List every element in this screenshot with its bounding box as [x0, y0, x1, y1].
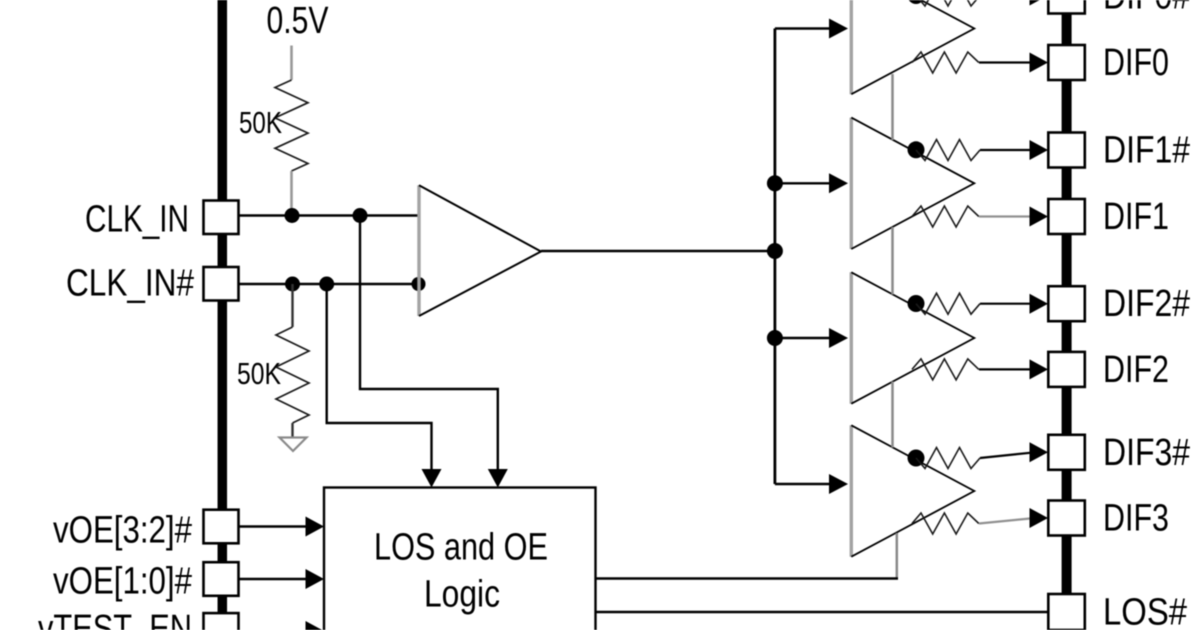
node distribution to buffer B2	[767, 330, 783, 346]
wire clock distribution bus	[774, 29, 777, 485]
svg-text:CLK_IN#: CLK_IN#	[66, 263, 194, 305]
wire OE vertical B3 to OE line (gray)	[896, 533, 899, 579]
output buffer B1	[851, 118, 974, 249]
input buffer U1	[419, 185, 541, 316]
arrow into DIF1# pin	[1030, 140, 1049, 160]
svg-text:Logic: Logic	[424, 574, 500, 616]
pin DIF2#	[1048, 286, 1085, 321]
wire CLK_IN tap to LOS logic	[360, 216, 498, 472]
pin DIF1	[1048, 199, 1085, 234]
arrow vOE[1:0]# into LOS logic	[306, 569, 325, 589]
svg-text:DIF0: DIF0	[1103, 42, 1169, 84]
wire stub resistor R2 to ground	[291, 423, 293, 438]
svg-text:DIF2: DIF2	[1103, 349, 1169, 391]
input buffer U1 left edge	[417, 185, 420, 316]
svg-text:vOE[1:0]#: vOE[1:0]#	[53, 561, 192, 603]
output buffer B2	[851, 272, 974, 403]
svg-text:LOS#: LOS#	[1103, 592, 1187, 630]
node junction CLK_IN tap	[353, 208, 368, 223]
left chip boundary bus	[218, 0, 228, 630]
wire resistor to DIF1# pin	[980, 149, 1030, 151]
wire CLK_IN to input buffer	[239, 214, 418, 216]
pin vOE[1:0]#	[204, 562, 239, 596]
pin CLK_IN#	[204, 267, 239, 301]
arrow into DIF2# pin	[1030, 294, 1049, 314]
wire resistor to DIF1 pin (gray)	[979, 215, 1030, 217]
arrow into DIF0# pin	[1030, 0, 1049, 6]
pin vOE[3:2]#	[204, 510, 239, 544]
svg-text:vOE[3:2]#: vOE[3:2]#	[53, 510, 192, 552]
pin DIF1#	[1048, 133, 1085, 168]
wire branch to buffer B0	[775, 27, 830, 29]
node distribution/input wire	[767, 243, 783, 259]
pin LOS#	[1048, 594, 1085, 630]
resistor on DIF2# output	[916, 293, 980, 314]
svg-text:50K: 50K	[239, 105, 282, 140]
svg-text:CLK_IN: CLK_IN	[85, 199, 189, 241]
resistor on DIF1# output	[916, 140, 980, 161]
svg-text:0.5V: 0.5V	[267, 0, 330, 42]
wire OE vertical B1-B2 (gray)	[891, 227, 894, 295]
node B3 inverting tap	[908, 450, 925, 467]
svg-text:DIF3: DIF3	[1103, 498, 1169, 540]
arrow into DIF2 pin	[1030, 359, 1049, 379]
wire OE line from LOS logic	[596, 577, 899, 579]
arrow into buffer B1	[829, 173, 848, 193]
output buffer B3 left edge	[850, 425, 853, 556]
arrow vTEST_EN into LOS logic	[306, 621, 325, 630]
pin DIF3#	[1048, 435, 1085, 470]
output buffer B3	[851, 425, 974, 556]
svg-text:DIF3#: DIF3#	[1103, 432, 1190, 474]
right chip boundary bus	[1062, 0, 1072, 594]
wire vOE[1:0]# to LOS logic	[239, 578, 307, 580]
output buffer B0	[851, 0, 974, 94]
svg-text:LOS and OE: LOS and OE	[374, 527, 548, 569]
resistor R2 50K pull-down	[276, 327, 309, 423]
pin CLK_IN	[204, 201, 239, 235]
LOS and OE Logic block U2	[324, 488, 596, 630]
arrow into DIF1 pin	[1030, 207, 1049, 227]
pin DIF3	[1048, 501, 1085, 536]
output buffer B1 left edge	[850, 118, 853, 249]
node B1 inverting tap	[908, 141, 925, 158]
wire OE vertical B0-B1 (gray)	[891, 74, 894, 140]
pin DIF0#	[1048, 0, 1085, 14]
node B2 inverting tap	[908, 295, 925, 312]
wire branch to buffer B2	[775, 337, 830, 339]
wire resistor to DIF3 pin (gray)	[979, 519, 1030, 524]
arrow into LOS logic top (from CLK_IN#)	[422, 469, 442, 488]
arrow into DIF3 pin	[1030, 508, 1049, 528]
svg-text:DIF0#: DIF0#	[1103, 0, 1190, 18]
arrow into DIF3# pin	[1030, 442, 1049, 462]
node junction R1/CLK_IN	[285, 208, 300, 223]
pin DIF0	[1048, 45, 1085, 80]
arrow into buffer B3	[829, 474, 848, 494]
pin DIF2	[1048, 352, 1085, 387]
wire stub from 0.5V to resistor R1	[290, 46, 293, 81]
wire LOS# from logic to pin	[596, 611, 1049, 613]
arrow into buffer B0	[829, 19, 848, 39]
ground	[280, 438, 307, 452]
wire stub CLK_IN# to resistor R2	[291, 284, 293, 327]
wire CLK_IN# to input buffer	[239, 283, 418, 285]
svg-text:50K: 50K	[237, 356, 281, 391]
svg-text:vTEST_EN: vTEST_EN	[38, 608, 192, 630]
output buffer B2 left edge	[850, 272, 853, 403]
wire branch to buffer B1	[775, 182, 830, 184]
arrow vOE[3:2]# into LOS logic	[306, 517, 325, 537]
resistor on DIF1 output	[912, 206, 979, 227]
wire resistor to DIF2# pin	[980, 303, 1030, 305]
wire resistor to DIF0 pin	[979, 61, 1030, 63]
node at input buffer lower input	[412, 277, 426, 291]
arrow into buffer B2	[829, 328, 848, 348]
output buffer B0 left edge	[850, 0, 853, 94]
resistor on DIF3 output	[912, 513, 979, 534]
resistor R1 50K pull-up	[275, 80, 308, 171]
wire resistor to DIF3# pin	[980, 453, 1030, 458]
resistor on DIF2 output	[912, 359, 979, 380]
wire branch to buffer B3	[775, 483, 830, 485]
resistor on DIF0 output	[912, 52, 979, 73]
wire vOE[3:2]# to LOS logic	[239, 525, 307, 527]
node distribution to buffer B1	[767, 175, 783, 191]
pin vTEST_EN	[204, 613, 239, 630]
resistor on DIF3# output	[916, 448, 980, 469]
arrow into LOS logic top (from CLK_IN)	[488, 469, 508, 488]
node junction CLK_IN# tap	[319, 277, 334, 292]
node junction R2/CLK_IN#	[285, 277, 300, 292]
svg-text:DIF1#: DIF1#	[1103, 130, 1190, 172]
svg-text:DIF1: DIF1	[1103, 196, 1169, 238]
wire resistor to DIF2 pin	[979, 368, 1030, 370]
wire CLK_IN# tap to LOS logic	[327, 284, 432, 472]
wire stub resistor R1 to CLK_IN net	[290, 171, 293, 212]
resistor on DIF0# output	[916, 0, 980, 6]
wire OE vertical B2-B3 (gray)	[891, 382, 894, 448]
wire input buffer output to distribution node	[541, 250, 775, 252]
svg-text:DIF2#: DIF2#	[1103, 283, 1190, 325]
arrow into DIF0 pin	[1030, 53, 1049, 73]
node B0 inverting tap	[908, 0, 925, 4]
